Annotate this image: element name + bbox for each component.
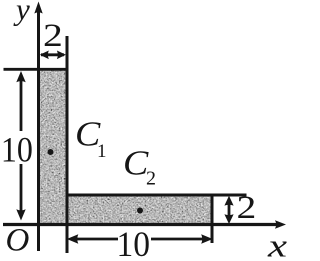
dimension 2 (top width of vertical bar): double-headed arrow [40,51,66,60]
svg-text:1: 1 [97,141,107,162]
top edge line of vertical bar with left extension [4,68,69,71]
top edge line of horizontal bar with right extension [66,194,247,197]
x-axis arrowhead [275,220,286,228]
y-axis arrowhead [34,2,42,14]
svg-text:O: O [6,223,30,259]
y-axis [37,8,40,251]
centroid dot C1 [48,149,54,155]
svg-text:2: 2 [146,168,156,190]
svg-text:x: x [267,229,288,261]
svg-text:10: 10 [117,224,151,261]
label C1 [75,115,107,163]
dimension 2 (right height of horizontal bar): vertical double-headed arrow [224,196,233,224]
x-axis [3,223,278,226]
horizontal bar (area 2, 10 x 2) [67,195,212,226]
dimension 10 (left height): line with arrows at both ends [16,71,25,221]
svg-text:y: y [13,0,30,27]
vertical line at x=67 (bar edge + top and bottom extensions) [66,36,69,253]
label C2 [123,144,156,190]
vertical bar (area 1, 2 x 10) [39,69,68,225]
svg-text:10: 10 [1,130,33,170]
centroid dot C2 [137,208,143,214]
svg-text:2: 2 [43,18,63,54]
dimension 10 (bottom length): line with arrows at both ends [67,234,213,244]
svg-text:2: 2 [237,190,257,226]
right edge extension line at x=212 [211,195,214,244]
